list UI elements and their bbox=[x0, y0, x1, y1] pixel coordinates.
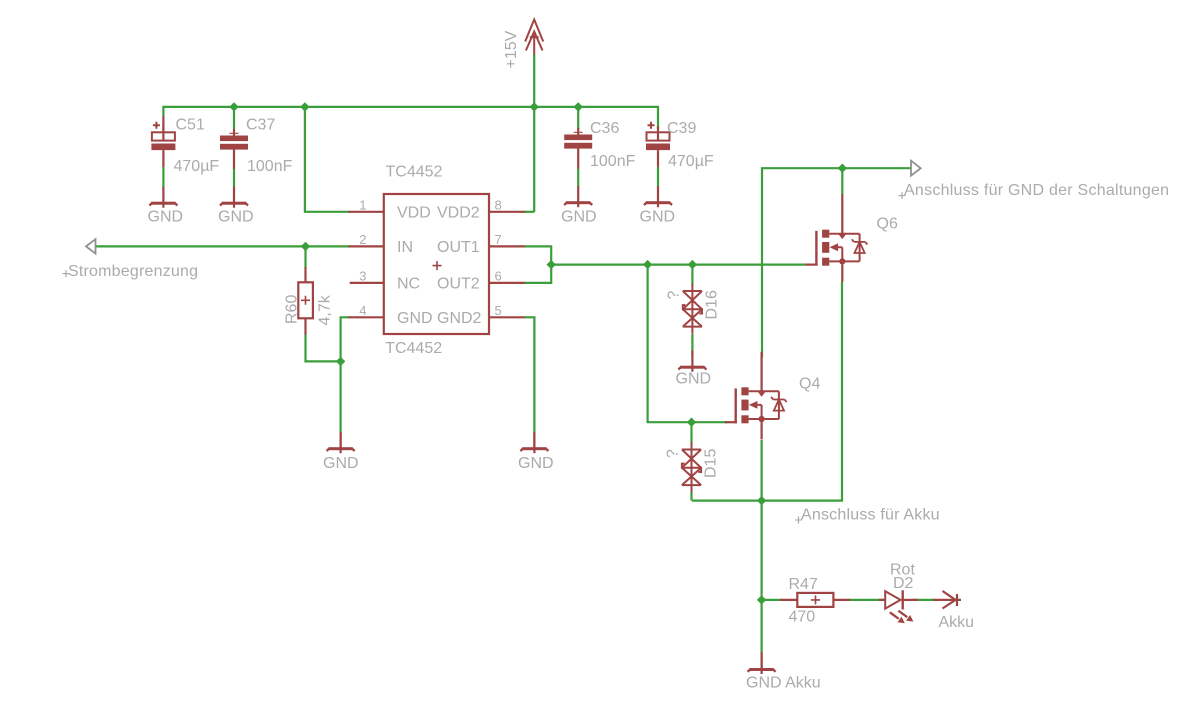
wire Akku rail Q4 source down bbox=[760, 440, 762, 652]
pin 4 GND lead bbox=[349, 316, 384, 318]
wire junction down to ground bbox=[340, 361, 342, 433]
svg-text:C51: C51 bbox=[176, 117, 205, 134]
svg-text:IN: IN bbox=[397, 239, 413, 256]
svg-text:R47: R47 bbox=[789, 576, 818, 593]
svg-text:1: 1 bbox=[359, 198, 366, 213]
svg-text:470: 470 bbox=[789, 609, 816, 626]
svg-text:470µF: 470µF bbox=[174, 158, 220, 175]
LED D2 bbox=[885, 591, 900, 608]
svg-text:470µF: 470µF bbox=[668, 153, 714, 170]
LED D2 emission arrows bbox=[890, 612, 899, 619]
text origin cross Anschluss fuer GND bbox=[899, 192, 906, 199]
svg-text:R60: R60 bbox=[284, 295, 301, 324]
svg-text:100nF: 100nF bbox=[590, 153, 636, 170]
driver IC U1 TC4452 body bbox=[384, 194, 489, 334]
ground symbol below C51 bbox=[149, 187, 177, 208]
junction IN net / R60 bbox=[301, 242, 310, 251]
svg-text:5: 5 bbox=[495, 303, 502, 318]
wire junction up to pin 4 bbox=[341, 317, 350, 361]
svg-text:VDD2: VDD2 bbox=[437, 205, 480, 222]
svg-text:+15V: +15V bbox=[503, 30, 520, 68]
svg-text:GND: GND bbox=[676, 371, 712, 388]
svg-text:Strombegrenzung: Strombegrenzung bbox=[68, 263, 198, 280]
svg-text:Akku: Akku bbox=[939, 614, 975, 631]
svg-text:GND: GND bbox=[561, 209, 597, 226]
svg-text:6: 6 bbox=[495, 269, 502, 284]
svg-text:GND: GND bbox=[518, 455, 554, 472]
junction bus/pin1 drop bbox=[300, 102, 309, 111]
svg-text:4: 4 bbox=[359, 303, 366, 318]
ground symbol GND Akku bbox=[760, 652, 762, 670]
svg-text:Anschluss für GND der Schaltun: Anschluss für GND der Schaltungen bbox=[904, 182, 1169, 199]
wire GND rail to Q4 drain bbox=[762, 168, 911, 357]
wire Strombegrenzung to pin 2 bbox=[96, 245, 350, 247]
pin 3 NC lead bbox=[350, 282, 384, 284]
svg-text:Q4: Q4 bbox=[799, 376, 820, 393]
pin 1 VDD lead bbox=[349, 211, 384, 213]
svg-text:GND: GND bbox=[397, 310, 433, 327]
off-page arrow Strombegrenzung bbox=[86, 239, 96, 253]
wire output net down to D16 bbox=[691, 265, 693, 285]
ground symbol below C37 bbox=[220, 187, 248, 208]
wire +15V power bus bbox=[163, 107, 658, 129]
pin 6 OUT2 lead bbox=[489, 282, 525, 284]
terminal arrow Akku bbox=[933, 591, 961, 609]
transistor Q6 p-mosfet bbox=[806, 194, 868, 282]
junction bus/C36 bbox=[574, 102, 583, 111]
pin 5 GND2 lead bbox=[489, 316, 525, 318]
svg-text:OUT1: OUT1 bbox=[437, 239, 480, 256]
resistor R47 bbox=[780, 599, 798, 601]
capacitor C36 bbox=[564, 128, 592, 169]
svg-text:4,7k: 4,7k bbox=[317, 294, 334, 325]
junction output / D16 branch bbox=[688, 260, 697, 269]
svg-text:D15: D15 bbox=[703, 449, 720, 478]
wire pin 7 / pin 6 tie bbox=[524, 246, 551, 283]
junction OUT1/OUT2 tie bbox=[547, 260, 556, 269]
ground symbol below C36 bbox=[564, 186, 592, 207]
junction GND rail / Q6 drain bbox=[838, 164, 847, 173]
wire output net to Q6 gate bbox=[551, 264, 805, 266]
svg-text:?: ? bbox=[666, 291, 683, 300]
svg-text:Q6: Q6 bbox=[877, 216, 898, 233]
svg-text:TC4452: TC4452 bbox=[386, 164, 443, 181]
transistor Q4 p-mosfet bbox=[725, 352, 787, 440]
svg-text:GND: GND bbox=[640, 209, 676, 226]
wire pin 8 bbox=[524, 211, 534, 213]
resistor R60 bbox=[304, 267, 306, 283]
junction output / Q4 gate branch bbox=[643, 260, 652, 269]
svg-text:GND Akku: GND Akku bbox=[746, 675, 821, 692]
svg-text:?: ? bbox=[665, 449, 682, 458]
junction bus/+15V bbox=[530, 102, 539, 111]
junction Akku net bbox=[757, 496, 766, 505]
svg-text:C39: C39 bbox=[667, 120, 696, 137]
svg-text:NC: NC bbox=[397, 276, 420, 293]
svg-text:TC4452: TC4452 bbox=[385, 340, 442, 357]
svg-text:GND: GND bbox=[148, 209, 184, 226]
svg-text:GND: GND bbox=[218, 209, 254, 226]
junction Akku rail / R47 / GND Akku bbox=[757, 595, 766, 604]
wire R60 bottom to ground junction bbox=[306, 334, 341, 362]
svg-text:GND2: GND2 bbox=[437, 310, 482, 327]
suppressor diode D15 bbox=[682, 442, 701, 492]
svg-text:100nF: 100nF bbox=[247, 158, 293, 175]
wire C36 stem bbox=[577, 107, 579, 130]
wire LED to Akku terminal bbox=[912, 599, 934, 601]
svg-text:3: 3 bbox=[359, 269, 366, 284]
wire R47 to LED bbox=[849, 599, 885, 601]
svg-text:C36: C36 bbox=[590, 120, 619, 137]
svg-text:Anschluss für Akku: Anschluss für Akku bbox=[801, 507, 940, 524]
wire Q6 drain stem bbox=[841, 168, 843, 195]
svg-text:VDD: VDD bbox=[397, 205, 431, 222]
wire D16 to ground bbox=[691, 334, 693, 356]
IC origin cross bbox=[433, 261, 442, 270]
suppressor diode D16 bbox=[683, 284, 702, 334]
junction bus/C37 bbox=[229, 102, 238, 111]
svg-text:8: 8 bbox=[495, 198, 502, 213]
wire Q6 source down to Akku net bbox=[692, 282, 842, 501]
svg-text:GND: GND bbox=[323, 455, 359, 472]
svg-text:2: 2 bbox=[359, 232, 366, 247]
ground symbol below R60 bbox=[340, 433, 342, 451]
wire D15 top lead bbox=[690, 422, 692, 444]
pin 8 VDD2 lead bbox=[489, 211, 525, 213]
junction Q4 gate / D15 branch bbox=[687, 418, 696, 427]
capacitor C37 bbox=[220, 129, 248, 170]
svg-text:7: 7 bbox=[495, 232, 502, 247]
ground symbol below C39 bbox=[644, 186, 672, 207]
ground symbol below pin 5 bbox=[533, 433, 535, 451]
text origin cross Anschluss fuer Akku bbox=[795, 517, 802, 524]
off-page arrow Anschluss fuer GND der Schaltungen bbox=[911, 161, 921, 176]
pin 2 IN lead bbox=[349, 245, 384, 247]
wire R47 left bbox=[762, 599, 781, 601]
supply symbol +15V bbox=[525, 20, 543, 55]
text origin cross Strombegrenzung bbox=[63, 270, 70, 277]
svg-text:D16: D16 bbox=[704, 290, 721, 319]
pin 7 OUT1 lead bbox=[489, 245, 525, 247]
svg-text:OUT2: OUT2 bbox=[437, 276, 480, 293]
ground symbol below D16 bbox=[678, 351, 706, 372]
svg-text:C37: C37 bbox=[246, 117, 275, 134]
wire D15 bottom lead bbox=[690, 492, 692, 501]
junction R60 / pin4 / ground bbox=[336, 357, 345, 366]
wire bus to pin 1 bbox=[305, 107, 350, 212]
wire +15V stem down to pin 8 corner bbox=[533, 54, 535, 212]
wire output net down to Q4 gate bbox=[648, 265, 728, 423]
capacitor C39 bbox=[646, 122, 670, 168]
wire pin 5 to ground bbox=[524, 317, 534, 433]
svg-text:D2: D2 bbox=[893, 575, 914, 592]
wire R60 top lead bbox=[304, 246, 306, 268]
wire C37 stem bbox=[233, 107, 235, 130]
capacitor C51 bbox=[151, 122, 175, 168]
